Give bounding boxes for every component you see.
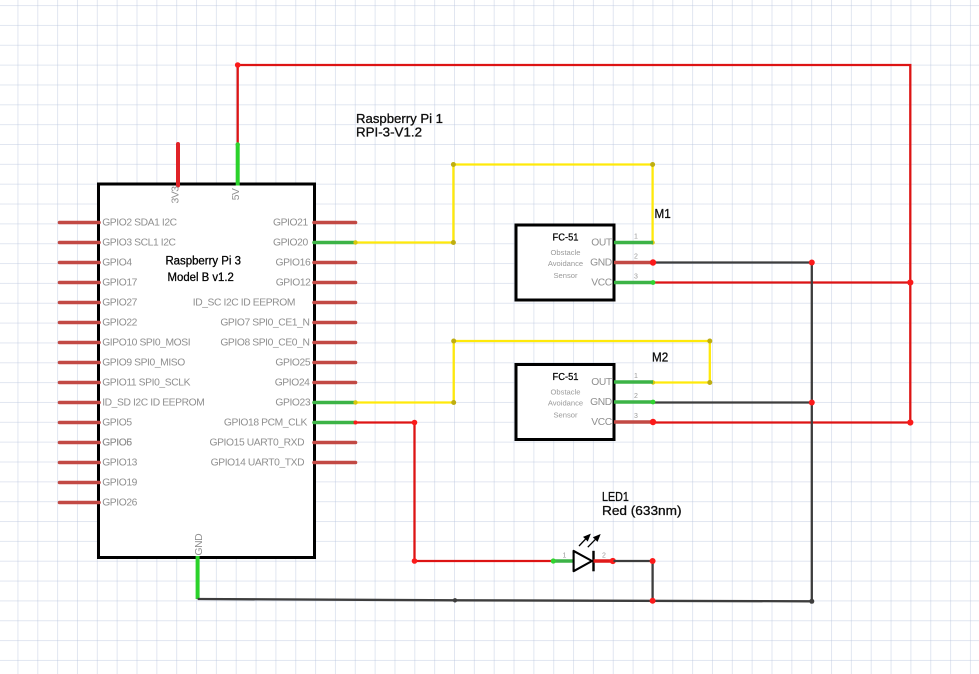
U1 pin label GPIO12: [276, 278, 311, 289]
svg-text:3: 3: [634, 413, 638, 420]
wire M2 GND to vertical (dark gray): [653, 401, 812, 403]
U1 pin leg GPIO14 (right, unconnected red): [314, 461, 356, 465]
U1 pin leg ID_SC (right, unconnected red): [314, 301, 356, 305]
svg-text:OUT: OUT: [591, 377, 613, 388]
U1 pin label GPIO13: [102, 458, 137, 469]
U1 pin leg GPIO25 (right, unconnected red): [314, 361, 356, 365]
U1 pin leg GPIO18 (right, connected green): [314, 421, 356, 425]
svg-text:GIPO10 SPI0_MOSI: GIPO10 SPI0_MOSI: [102, 338, 190, 349]
U1 pin label GPIO6: [102, 438, 132, 449]
U2 pin leg GND: [614, 261, 653, 265]
svg-text:Avoidance: Avoidance: [548, 259, 583, 268]
bend dot yellow1 a: [451, 240, 456, 245]
U1 pin label GPIO11 SPI0_SCLK: [102, 378, 190, 389]
svg-text:Model B v1.2: Model B v1.2: [168, 270, 234, 284]
svg-text:GPIO2 SDA1 I2C: GPIO2 SDA1 I2C: [102, 218, 177, 229]
U3 label Obstacle Avoidance Sensor: [548, 388, 583, 420]
svg-text:Red (633nm): Red (633nm): [602, 503, 682, 518]
svg-text:M1: M1: [655, 206, 671, 221]
U1 pin label ID_SC I2C ID EEPROM: [193, 298, 295, 309]
U1 pin leg GIPO10 (left, unconnected red): [60, 341, 100, 345]
U1 pin leg ID_SD (left, unconnected red): [60, 401, 100, 405]
junction dot LED wire / bottom bus: [650, 598, 656, 604]
U1 pin leg GPIO20 (right, connected green): [314, 241, 356, 245]
junction dot bottom GND / vertical: [809, 599, 814, 604]
LED1 pin number 2: [602, 553, 606, 560]
U1 pin leg GPIO3 (left, unconnected red): [60, 241, 100, 245]
svg-text:5V: 5V: [231, 188, 242, 200]
U1 pin label GPIO2 SDA1 I2C: [102, 218, 177, 229]
svg-text:GPIO6: GPIO6: [102, 438, 132, 449]
svg-text:FC-51: FC-51: [553, 372, 579, 383]
svg-text:Sensor: Sensor: [553, 411, 578, 420]
U1 pin leg GPIO27 (left, unconnected red): [60, 301, 100, 305]
U1 pin leg GPIO21 (right, unconnected red): [314, 221, 356, 225]
U1 pin label GPIO9 SPI0_MISO: [102, 358, 185, 369]
svg-text:Sensor: Sensor: [553, 271, 578, 280]
LED1 triangle symbol: [574, 551, 592, 571]
bend dot GPIO18 wire bottom corner: [412, 558, 418, 564]
U3 pin VCC connection dot: [650, 419, 656, 425]
U1 pin leg GPIO17 (left, unconnected red): [60, 281, 100, 285]
U1 pin label GPIO14 UART0_TXD: [211, 458, 305, 469]
endpoint dot yellow2 at M2 OUT: [651, 380, 655, 384]
U3 pin GND connection dot: [651, 400, 656, 405]
svg-text:GPIO7 SPI0_CE1_N: GPIO7 SPI0_CE1_N: [220, 318, 309, 329]
U2 label FC-51: [553, 233, 579, 244]
U1 pin label GPIO25: [275, 358, 310, 369]
U1 pin leg GPIO15 (right, unconnected red): [314, 441, 356, 445]
junction dot M1 GND corner: [809, 260, 815, 266]
LED1 light arrows: [579, 535, 600, 547]
svg-text:ID_SD I2C ID EEPROM: ID_SD I2C ID EEPROM: [102, 398, 204, 409]
bend dot yellow2 a: [451, 400, 456, 405]
U1 pin leg GPIO13 (left, unconnected red): [60, 461, 100, 465]
endpoint dot yellow1 at GPIO20: [353, 240, 357, 244]
endpoint dot yellow1 at M1 OUT: [650, 240, 654, 244]
svg-text:GPIO3 SCL1 I2C: GPIO3 SCL1 I2C: [102, 238, 176, 249]
bend dot yellow2 c: [707, 339, 712, 344]
U2 pin VCC connection dot: [651, 280, 656, 285]
bend dot yellow1 c: [650, 162, 655, 167]
U2 pin label GND: [590, 258, 612, 269]
U1 pin leg GPIO12 (right, unconnected red): [314, 281, 356, 285]
svg-text:1: 1: [563, 553, 567, 560]
U2 label Obstacle Avoidance Sensor: [548, 248, 583, 280]
U1 pin label GPIO27: [102, 298, 137, 309]
label M1: [655, 206, 671, 221]
U1 pin leg GPIO26 (left, unconnected red): [60, 501, 100, 505]
svg-text:GPIO15 UART0_RXD: GPIO15 UART0_RXD: [209, 438, 304, 449]
U2 pin number 1: [634, 234, 638, 241]
U1 pin label GPIO24: [275, 378, 310, 389]
endpoint dot at LED1 cathode: [610, 558, 616, 564]
wire M1 VCC to rail (red): [653, 281, 910, 283]
U1 pin label GPIO23: [275, 398, 310, 409]
svg-text:3V3: 3V3: [170, 186, 181, 204]
LED1 anode leg (green): [553, 559, 574, 563]
U1 pin leg GPIO19 (left, unconnected red): [60, 481, 100, 485]
U1 pin label GPIO22: [102, 318, 137, 329]
wire GPIO20 to M1 OUT (yellow): [356, 165, 653, 243]
U3 pin leg OUT: [614, 380, 653, 384]
wire M2 VCC to rail (red): [653, 421, 910, 423]
junction dot M2 GND / vertical: [809, 400, 815, 406]
U1 pin label GPIO16: [275, 258, 310, 269]
svg-text:GPIO9 SPI0_MISO: GPIO9 SPI0_MISO: [102, 358, 185, 369]
svg-text:2: 2: [602, 553, 606, 560]
U1 pin label GPIO17: [102, 278, 137, 289]
svg-text:FC-51: FC-51: [553, 233, 579, 244]
U1 pin label GND (rotated): [194, 534, 205, 556]
label Raspberry Pi 1 / RPI-3-V1.2 title: [356, 111, 443, 140]
svg-text:GPIO8 SPI0_CE0_N: GPIO8 SPI0_CE0_N: [220, 338, 309, 349]
bend dot LED wire corner: [650, 558, 656, 564]
U3 pin label OUT: [591, 377, 613, 388]
svg-text:GPIO19: GPIO19: [102, 478, 137, 489]
part U1 Raspberry Pi 3 body: [99, 184, 315, 558]
svg-text:GND: GND: [194, 534, 205, 556]
svg-text:Obstacle: Obstacle: [551, 388, 581, 397]
U1 pin label GPIO21: [273, 218, 308, 229]
U1 pin label GPIO26: [102, 498, 137, 509]
U2 pin number 2: [634, 254, 638, 261]
U1 pin leg 5V (top, connected green): [236, 144, 240, 186]
U1 pin label GPIO18 PCM_CLK: [224, 418, 308, 429]
svg-text:RPI-3-V1.2: RPI-3-V1.2: [356, 125, 422, 140]
svg-text:GPIO22: GPIO22: [102, 318, 137, 329]
U1 pin label 3V3 (rotated): [170, 186, 181, 204]
bend dot bottom GND bus: [453, 598, 457, 602]
U2 pin leg OUT: [614, 241, 653, 245]
svg-text:GPIO24: GPIO24: [275, 378, 310, 389]
svg-text:LED1: LED1: [602, 489, 629, 504]
U2 pin leg VCC: [614, 281, 653, 285]
U1 pin leg 3V3 (top, unconnected red): [176, 144, 180, 186]
U1 pin leg GPIO16 (right, unconnected red): [314, 261, 356, 265]
U2 pin number 3: [634, 274, 638, 281]
svg-text:GPIO25: GPIO25: [275, 358, 310, 369]
svg-text:1: 1: [634, 234, 638, 241]
U3 pin leg VCC: [614, 420, 653, 424]
U3 pin number 1: [634, 373, 638, 380]
bend dot yellow2 b: [451, 339, 456, 344]
svg-text:GPIO21: GPIO21: [273, 218, 308, 229]
U1 pin label GPIO19: [102, 478, 137, 489]
svg-text:M2: M2: [652, 350, 668, 365]
U1 pin leg GPIO5 (left, unconnected red): [60, 421, 100, 425]
U1 pin leg GPIO2 (left, unconnected red): [60, 221, 100, 225]
U1 pin label ID_SD I2C ID EEPROM: [102, 398, 204, 409]
svg-text:GPIO17: GPIO17: [102, 278, 137, 289]
endpoint dot at LED1 anode: [551, 558, 556, 563]
U3 pin label VCC: [591, 417, 613, 428]
LED1 pin number 1: [563, 553, 567, 560]
wire bottom GND bus from Pi GND (dark gray): [198, 599, 812, 601]
U1 pin label GPIO5: [102, 418, 132, 429]
U1 pin label GPIO15 UART0_RXD: [209, 438, 304, 449]
U3 pin label GND: [590, 397, 612, 408]
LED1 cathode leg (red): [594, 559, 613, 563]
svg-text:GPIO16: GPIO16: [275, 258, 310, 269]
svg-text:GPIO13: GPIO13: [102, 458, 137, 469]
svg-text:2: 2: [634, 254, 638, 261]
svg-text:GPIO18 PCM_CLK: GPIO18 PCM_CLK: [224, 418, 308, 429]
svg-text:GND: GND: [590, 258, 612, 269]
junction dot rail / M1 VCC: [907, 279, 913, 285]
svg-text:GPIO11 SPI0_SCLK: GPIO11 SPI0_SCLK: [102, 378, 190, 389]
U2 pin GND connection dot: [650, 259, 656, 265]
U1 pin label GIPO10 SPI0_MOSI: [102, 338, 190, 349]
endpoint dot at GPIO18 pin: [354, 421, 358, 425]
U1 pin label GPIO3 SCL1 I2C: [102, 238, 176, 249]
bend dot 5V rail top-left corner: [235, 62, 241, 68]
svg-text:Avoidance: Avoidance: [548, 399, 583, 408]
svg-text:OUT: OUT: [591, 238, 613, 249]
svg-text:GPIO23: GPIO23: [275, 398, 310, 409]
U2 pin label OUT: [591, 238, 613, 249]
U1 pin leg GPIO4 (left, unconnected red): [60, 261, 100, 265]
endpoint dot at 5V pin: [236, 142, 240, 146]
wire 5V power rail (red): 5V pin up, across top, down right side: [238, 65, 911, 423]
LED1 cathode bar: [592, 551, 594, 572]
svg-text:ID_SC I2C ID EEPROM: ID_SC I2C ID EEPROM: [193, 298, 295, 309]
svg-text:GPIO27: GPIO27: [102, 298, 137, 309]
svg-text:Obstacle: Obstacle: [551, 248, 581, 257]
U3 pin number 3: [634, 413, 638, 420]
U1 pin leg GND (bottom, connected green): [196, 556, 200, 599]
U1 pin leg GPIO22 (left, unconnected red): [60, 321, 100, 325]
U1 pin label GPIO4: [102, 258, 132, 269]
U1 pin leg GPIO11 (left, unconnected red): [60, 381, 100, 385]
svg-text:1: 1: [634, 373, 638, 380]
U3 pin leg GND: [614, 400, 653, 404]
svg-text:VCC: VCC: [591, 417, 613, 428]
U1 pin label GPIO8 SPI0_CE0_N: [220, 338, 309, 349]
svg-text:3: 3: [634, 274, 638, 281]
U1 pin leg GPIO7 (right, unconnected red): [314, 321, 356, 325]
wire GPIO18 to LED1 anode (red): [356, 423, 554, 562]
bend dot GPIO18 wire top corner: [412, 420, 418, 426]
label LED1: [602, 489, 682, 518]
U2 pin label VCC: [591, 278, 613, 289]
U1 pin leg GPIO9 (left, unconnected red): [60, 361, 100, 365]
svg-text:GPIO26: GPIO26: [102, 498, 137, 509]
part U2 FC-51 sensor body: [516, 225, 614, 300]
U1 part title text: [165, 254, 241, 284]
U1 pin leg GPIO6 (left, unconnected red): [60, 441, 100, 445]
svg-text:GND: GND: [590, 397, 612, 408]
svg-text:VCC: VCC: [591, 278, 613, 289]
svg-text:Raspberry Pi 3: Raspberry Pi 3: [165, 254, 241, 268]
svg-text:GPIO5: GPIO5: [102, 418, 132, 429]
bend dot yellow1 b: [451, 162, 456, 167]
svg-text:2: 2: [634, 393, 638, 400]
U1 pin label GPIO7 SPI0_CE1_N: [220, 318, 309, 329]
wire GPIO23 to M2 OUT (yellow): [356, 341, 710, 403]
svg-text:GPIO4: GPIO4: [102, 258, 132, 269]
label M2: [652, 350, 668, 365]
junction dot rail end / M2 VCC: [907, 419, 913, 425]
endpoint dot yellow2 at GPIO23: [353, 400, 357, 404]
U1 pin leg GPIO23 (right, connected green): [314, 401, 356, 405]
U1 pin label 5V (rotated): [231, 188, 242, 200]
U3 pin number 2: [634, 393, 638, 400]
U1 pin leg GPIO8 (right, unconnected red): [314, 341, 356, 345]
part U3 FC-51 sensor body: [516, 365, 614, 440]
svg-text:GPIO12: GPIO12: [276, 278, 311, 289]
svg-text:GPIO14 UART0_TXD: GPIO14 UART0_TXD: [211, 458, 305, 469]
U3 label FC-51: [553, 372, 579, 383]
wire M1 GND right and down (dark gray): [655, 263, 812, 602]
svg-text:GPIO20: GPIO20: [273, 238, 308, 249]
U1 pin label GPIO20: [273, 238, 308, 249]
U1 pin leg GPIO24 (right, unconnected red): [314, 381, 356, 385]
bend dot yellow2 d: [707, 380, 712, 385]
wire LED1 cathode to bottom GND bus (dark gray): [614, 561, 653, 601]
